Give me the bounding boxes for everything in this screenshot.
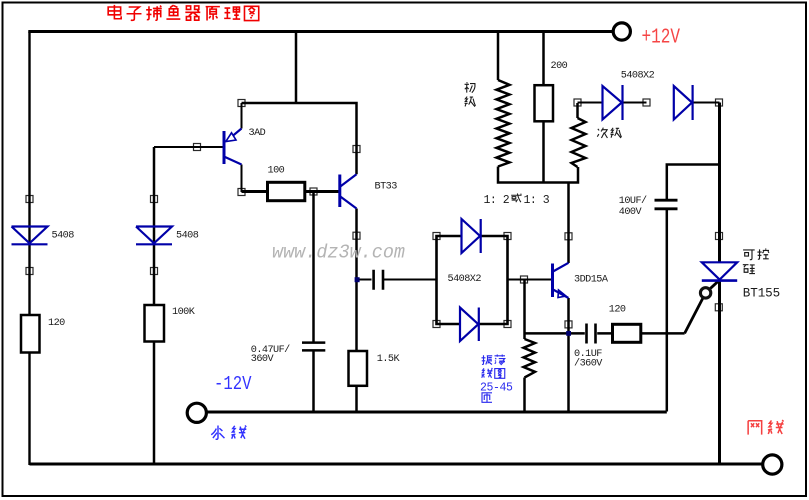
- svg-text:200: 200: [551, 61, 568, 72]
- svg-text:100K: 100K: [172, 307, 196, 318]
- svg-text:www.dz3w.com: www.dz3w.com: [272, 242, 405, 264]
- svg-text:+12V: +12V: [642, 26, 681, 50]
- svg-text:100: 100: [268, 165, 285, 176]
- svg-text:25-45: 25-45: [480, 382, 513, 395]
- svg-text:/360V: /360V: [574, 358, 603, 370]
- svg-text:BT155: BT155: [743, 286, 780, 300]
- svg-text:BT33: BT33: [375, 182, 398, 193]
- svg-text:120: 120: [609, 305, 626, 316]
- svg-text:1: 2: 1: 2: [484, 194, 510, 207]
- svg-text:1: 3: 1: 3: [524, 194, 550, 207]
- svg-text:3DD15A: 3DD15A: [574, 274, 609, 285]
- svg-text:400V: 400V: [619, 207, 643, 218]
- svg-text:-12V: -12V: [214, 373, 252, 395]
- svg-text:360V: 360V: [251, 354, 275, 365]
- svg-text:1.5K: 1.5K: [377, 354, 401, 365]
- svg-text:5408X2: 5408X2: [448, 274, 482, 285]
- svg-text:3AD: 3AD: [249, 128, 266, 139]
- svg-text:10UF/: 10UF/: [619, 195, 647, 207]
- svg-text:5408: 5408: [52, 231, 75, 242]
- svg-text:5408X2: 5408X2: [621, 71, 655, 82]
- svg-text:120: 120: [48, 318, 65, 329]
- svg-text:5408: 5408: [176, 231, 199, 242]
